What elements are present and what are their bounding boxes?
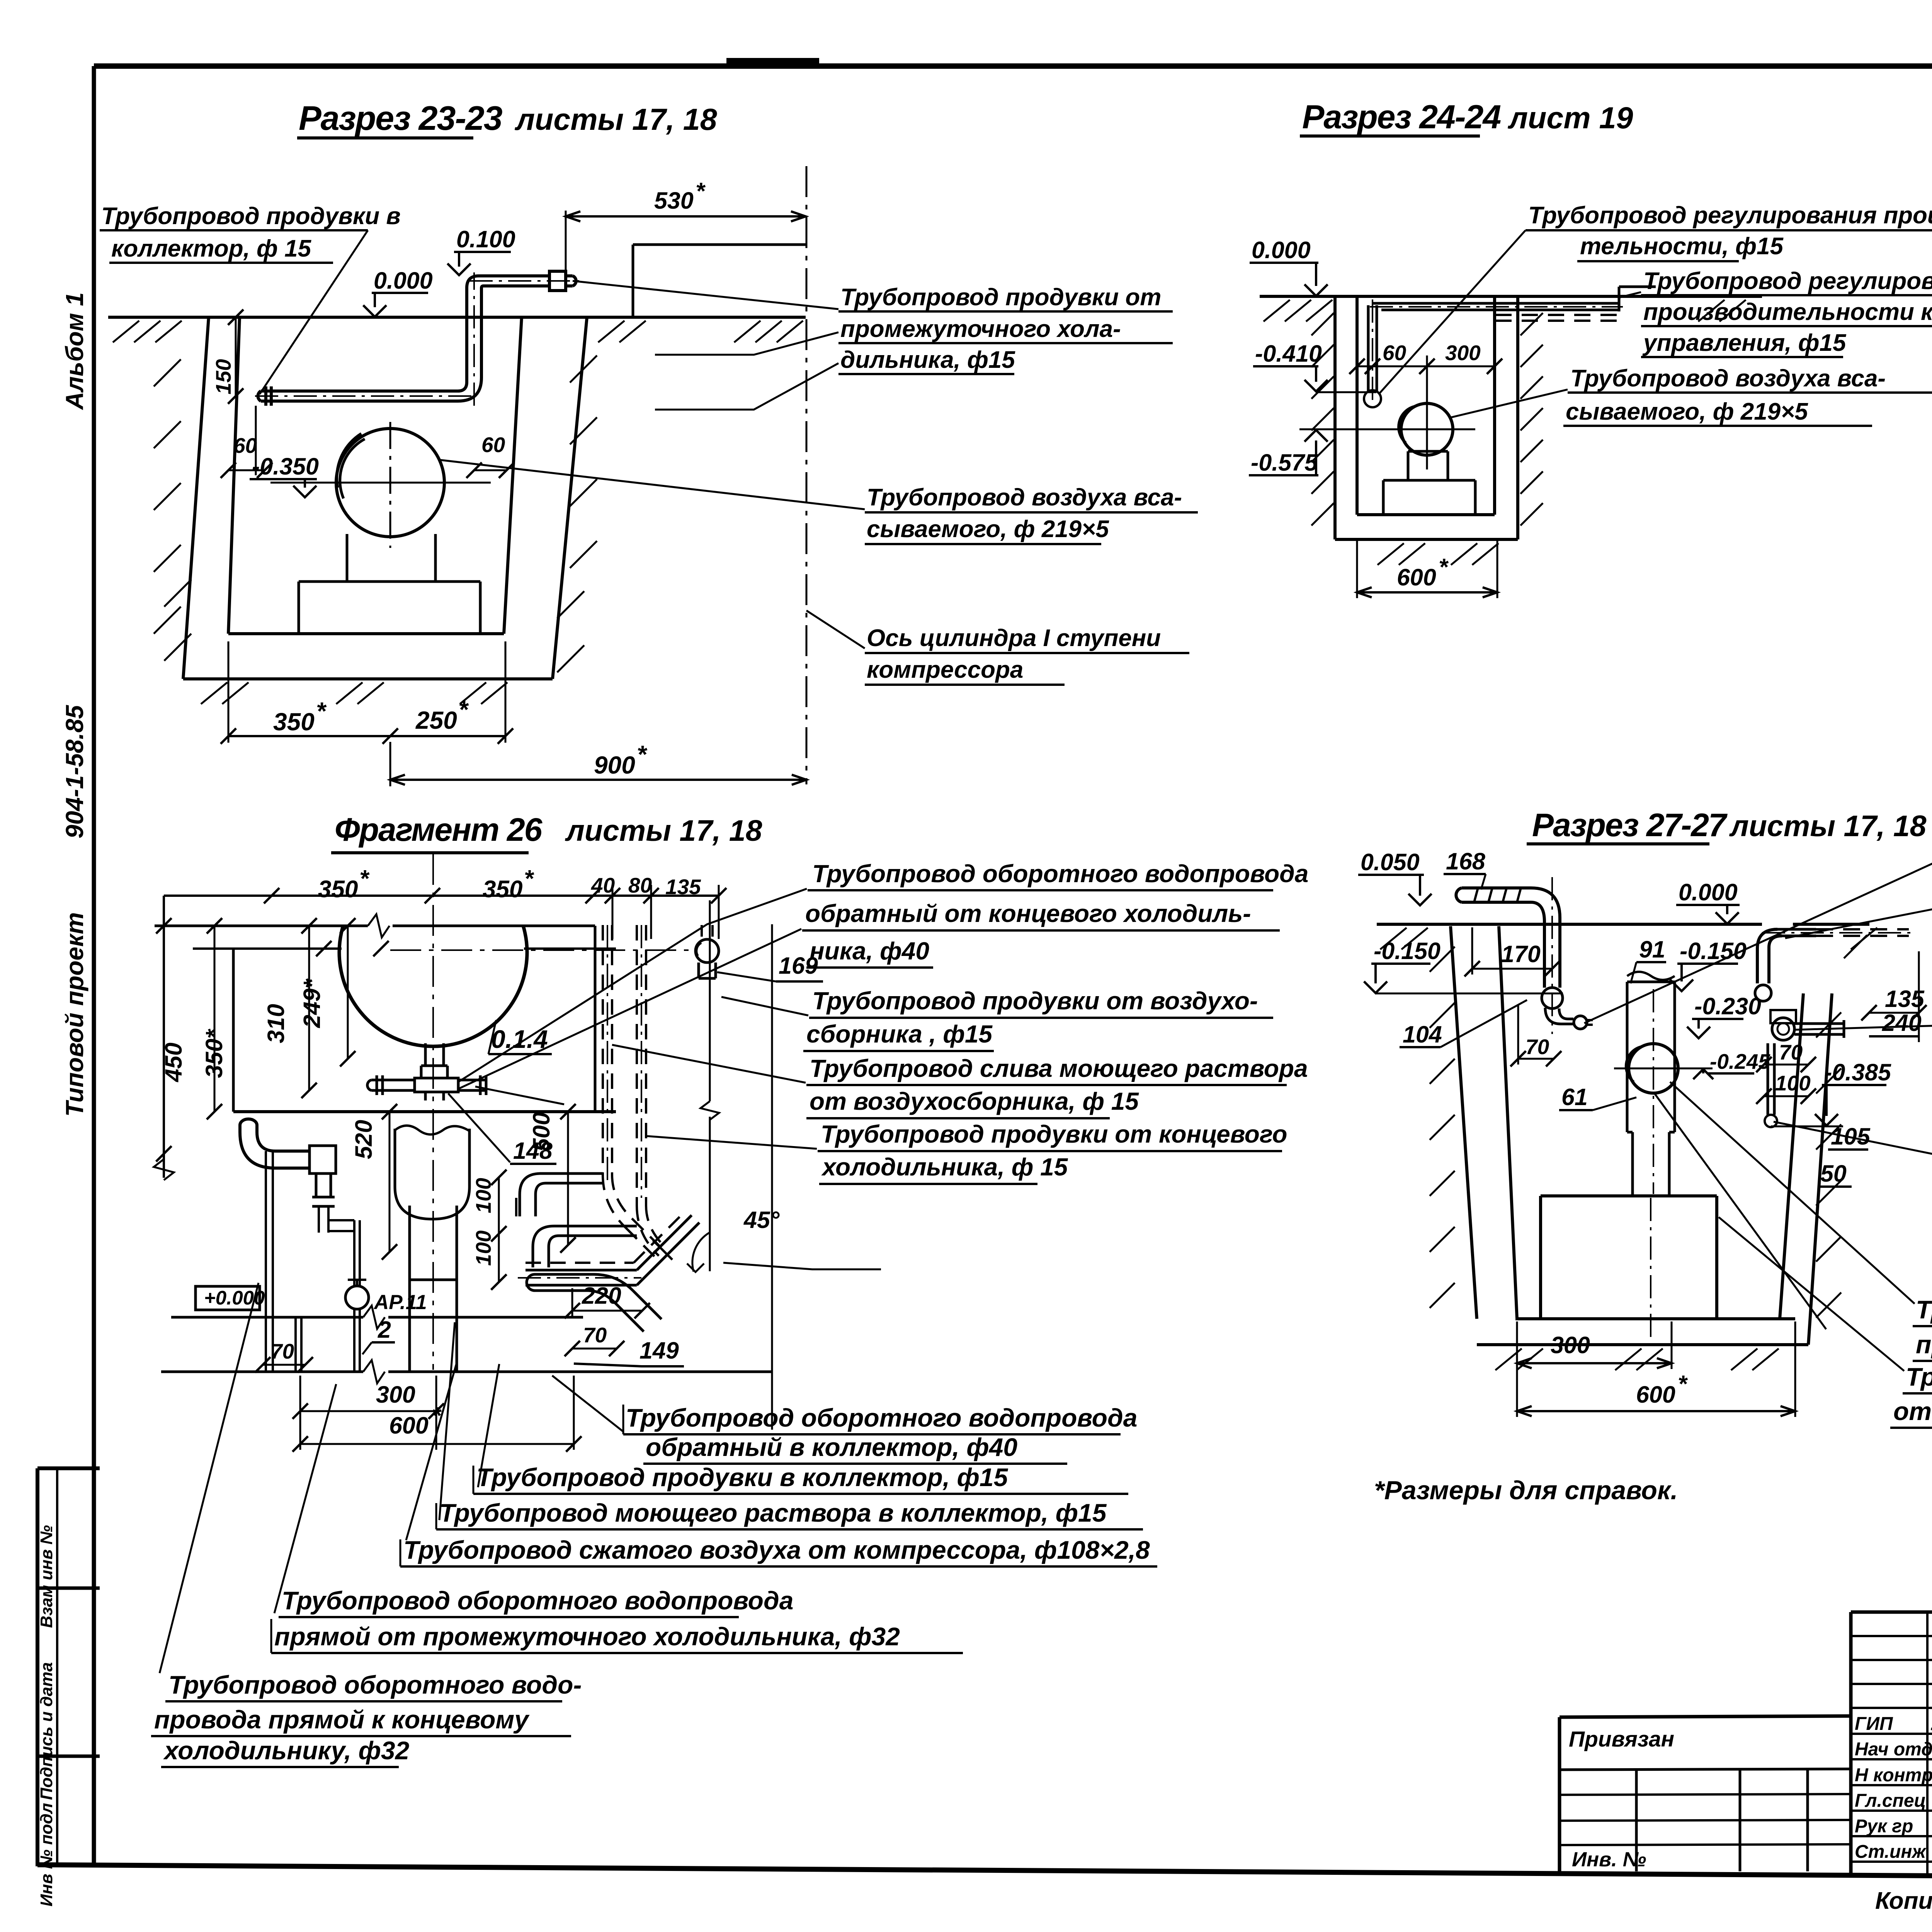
left margin vertical pipes to bottom xyxy=(265,1151,267,1317)
ground hatch s5 xyxy=(1380,928,1406,949)
svg-text:Трубопровод продувки от в: Трубопровод продувки от воздухо- xyxy=(812,987,1258,1015)
svg-text:Трубопровод оборотного водо-: Трубопровод оборотного водо- xyxy=(168,1670,582,1699)
trench walls section 1 xyxy=(183,317,209,679)
ground hatching left xyxy=(113,321,139,342)
support pedestal xyxy=(1383,479,1475,482)
svg-text:600: 600 xyxy=(1397,564,1436,590)
ground hatch xyxy=(1264,300,1290,321)
svg-text:*: * xyxy=(524,866,534,892)
pipe elbow down xyxy=(1531,888,1560,918)
svg-text:Трубопровод воздуха вса-: Трубопровод воздуха вса- xyxy=(1570,365,1886,392)
bottom pipe bundle to 45deg xyxy=(526,1262,634,1264)
svg-text:Трубопровод оборотного водоп: Трубопровод оборотного водопровода xyxy=(812,860,1308,888)
svg-text:Трубопровод сжатого воздуха: Трубопровод сжатого воздуха от ком- xyxy=(1916,1295,1932,1324)
crosshair + level -0.245 line xyxy=(1614,1068,1713,1070)
floor step right of trench xyxy=(632,245,634,317)
wall hatching xyxy=(1311,313,1334,335)
svg-text:Трубопровод продувки в: Трубопровод продувки в xyxy=(101,203,401,230)
svg-text:Фрагмент 26: Фрагмент 26 xyxy=(335,811,543,848)
+0.000 box xyxy=(196,1286,260,1310)
svg-text:300: 300 xyxy=(1551,1332,1590,1358)
svg-text:500: 500 xyxy=(528,1112,554,1151)
svg-text:0.000: 0.000 xyxy=(374,267,433,294)
pipe B flange circle xyxy=(1772,1018,1794,1040)
hatch under trench bottom xyxy=(201,682,227,704)
svg-text:*: * xyxy=(316,697,327,725)
suction air pipe circle d219x5 xyxy=(336,429,444,537)
svg-text:*Размеры для справок.: *Размеры для справок. xyxy=(1374,1476,1678,1505)
small box above pipe B xyxy=(1770,1010,1796,1023)
tank centerline extensions xyxy=(193,947,342,950)
svg-text:*: * xyxy=(1439,554,1449,580)
svg-text:Инв. №: Инв. № xyxy=(1572,1848,1646,1871)
svg-text:Ст.инж: Ст.инж xyxy=(1855,1842,1927,1862)
vertical pipe leg xyxy=(1543,922,1546,988)
tank centerlines xyxy=(432,854,434,1370)
ground line section 5 xyxy=(1377,923,1762,926)
svg-text:Трубопровод регулирования: Трубопровод регулирования xyxy=(1643,268,1932,294)
riser centerlines xyxy=(607,925,608,1182)
pipe pedestal section 1 xyxy=(346,534,349,582)
svg-text:170: 170 xyxy=(1501,941,1541,967)
pipe P2 elbow and run xyxy=(533,1226,554,1247)
45deg arc and label xyxy=(692,1233,709,1272)
hatch under channel xyxy=(1378,543,1404,565)
svg-text:ника, ф40: ника, ф40 xyxy=(810,937,929,965)
pipe P3 cap and run xyxy=(527,1274,535,1291)
svg-text:-0.245: -0.245 xyxy=(1710,1049,1770,1073)
dashed pipe to control panel xyxy=(1495,314,1618,316)
compressor cylinder column xyxy=(1627,972,1675,980)
svg-text:-0.410: -0.410 xyxy=(1255,340,1322,367)
control pipe vertical leg xyxy=(1367,305,1370,391)
svg-text:0.000: 0.000 xyxy=(1252,237,1311,263)
pipe step at right xyxy=(1618,287,1621,311)
svg-text:-0.150: -0.150 xyxy=(1374,938,1440,964)
svg-text:350: 350 xyxy=(483,876,522,903)
coupling box xyxy=(310,1146,336,1173)
privjazan box xyxy=(1560,1716,1851,1717)
svg-text:600: 600 xyxy=(1636,1381,1675,1408)
pipe P1 elbow and run xyxy=(520,1173,541,1194)
insulated blowdown pipe top left xyxy=(1462,886,1531,889)
45 degree diagonals xyxy=(637,1215,692,1270)
pipe circle crosshair xyxy=(270,482,491,484)
svg-text:коллектор, ф 15: коллектор, ф 15 xyxy=(111,235,312,262)
svg-text:ГИП: ГИП xyxy=(1855,1714,1893,1734)
drain elbow and valve xyxy=(1545,1008,1561,1024)
svg-text:Взам инв №: Взам инв № xyxy=(37,1525,56,1628)
top dimension line xyxy=(164,895,719,897)
signature table xyxy=(1849,1612,1853,1873)
compressor cylinder bell xyxy=(395,1126,469,1134)
svg-text:Разрез 23-23: Разрез 23-23 xyxy=(299,99,502,137)
svg-text:600: 600 xyxy=(389,1412,429,1439)
svg-text:Трубопровод продувки от: Трубопровод продувки от xyxy=(840,284,1161,311)
svg-text:904-1-58.85: 904-1-58.85 xyxy=(61,704,88,838)
blowdown pipe horizontal run xyxy=(261,389,458,393)
svg-text:250: 250 xyxy=(415,706,457,734)
svg-text:Инв № подл: Инв № подл xyxy=(37,1803,56,1906)
cylinder pipe circle xyxy=(1629,1044,1678,1093)
left pipe with elbow up xyxy=(276,1150,310,1153)
svg-text:листы 17, 18: листы 17, 18 xyxy=(565,814,762,847)
svg-text:240: 240 xyxy=(1882,1010,1922,1036)
svg-text:дильника, ф15: дильника, ф15 xyxy=(840,347,1015,373)
border frame xyxy=(94,63,1932,69)
tank neck xyxy=(424,1043,427,1066)
svg-text:Трубопровод продувки в колл: Трубопровод продувки в коллектор, ф15 xyxy=(476,1463,1009,1492)
svg-text:*: * xyxy=(359,866,370,892)
hatch under bottom s5 xyxy=(1495,1349,1522,1370)
elbow to valve pipe xyxy=(328,1219,354,1221)
pipe elbow fitting circle xyxy=(1364,390,1381,407)
svg-text:60: 60 xyxy=(481,433,505,457)
control pipe horizontal run xyxy=(1372,302,1618,305)
svg-text:60: 60 xyxy=(1383,341,1406,365)
shelf line under tank xyxy=(233,1110,616,1113)
svg-text:Альбом 1: Альбом 1 xyxy=(61,293,88,410)
right pipe A elbow from ground xyxy=(1757,929,1777,949)
leaders fragment right labels xyxy=(458,889,807,1082)
air receiver tank circle xyxy=(339,926,527,1046)
svg-text:сываемого, ф 219×5: сываемого, ф 219×5 xyxy=(867,516,1109,543)
svg-text:350: 350 xyxy=(318,876,358,903)
svg-text:*: * xyxy=(637,740,648,768)
fitting circle xyxy=(1542,988,1563,1009)
leader wires xyxy=(573,281,838,309)
svg-text:АР.11: АР.11 xyxy=(373,1291,427,1314)
svg-text:104: 104 xyxy=(1403,1021,1442,1048)
pipe coupling xyxy=(549,271,566,291)
extension verticals right xyxy=(709,900,711,1101)
svg-text:-0.350: -0.350 xyxy=(252,453,319,480)
svg-text:обратный от концевого хол: обратный от концевого холодиль- xyxy=(805,900,1251,927)
svg-text:70: 70 xyxy=(1779,1040,1803,1064)
svg-text:530: 530 xyxy=(654,187,694,214)
svg-text:Н контр: Н контр xyxy=(1855,1765,1932,1786)
svg-text:Трубопровод оборотного водоп: Трубопровод оборотного водопровода xyxy=(626,1403,1137,1432)
svg-text:прессора к концевому холоди: прессора к концевому холодильнику, ф108×… xyxy=(1916,1330,1932,1359)
svg-text:холодильнику, ф32: холодильнику, ф32 xyxy=(163,1736,410,1765)
svg-text:-0.575: -0.575 xyxy=(1251,449,1318,476)
svg-text:520: 520 xyxy=(350,1120,377,1159)
svg-text:0.000: 0.000 xyxy=(1679,879,1738,905)
svg-text:150: 150 xyxy=(211,359,235,395)
svg-text:0.050: 0.050 xyxy=(1361,849,1420,875)
svg-text:Трубопровод моющего раствора в: Трубопровод моющего раствора в коллектор… xyxy=(439,1498,1107,1527)
svg-text:Трубопровод оборотного водоп: Трубопровод оборотного водопровода прямо… xyxy=(1906,1362,1932,1391)
svg-text:Трубопровод оборотного водоп: Трубопровод оборотного водопровода xyxy=(282,1586,793,1615)
svg-text:249*: 249* xyxy=(299,978,325,1028)
svg-text:168: 168 xyxy=(1446,848,1485,874)
svg-text:80: 80 xyxy=(628,873,652,897)
excavation hatching walls xyxy=(154,359,181,386)
leader wire to blowdown pipe xyxy=(260,230,368,394)
elbow circle top right xyxy=(696,939,719,963)
svg-text:Трубопровод продувки от кон: Трубопровод продувки от концевого xyxy=(821,1120,1287,1148)
valve AP.11 xyxy=(345,1286,369,1309)
svg-text:100: 100 xyxy=(1775,1071,1811,1095)
svg-text:Трубопровод слива моющего ра: Трубопровод слива моющего раствора xyxy=(810,1054,1308,1082)
svg-text:прямой от промежуточного хо: прямой от промежуточного холодильника, ф… xyxy=(274,1622,900,1651)
svg-text:350: 350 xyxy=(273,708,315,736)
svg-text:900: 900 xyxy=(594,751,635,779)
fragment bottom floor lines xyxy=(171,1316,363,1319)
svg-text:Гл.спец: Гл.спец xyxy=(1855,1791,1926,1811)
left margin stamp column xyxy=(37,1466,100,1470)
svg-text:от воздухосборника, ф 15: от воздухосборника, ф 15 xyxy=(810,1087,1139,1115)
slab cut line with break xyxy=(155,925,368,927)
blowdown pipe elbow up xyxy=(458,378,481,401)
svg-text:*: * xyxy=(696,178,706,204)
wall hatch s5 xyxy=(1430,947,1455,972)
svg-text:100: 100 xyxy=(471,1230,495,1266)
svg-text:Копировал Ненашева: Копировал Ненашева xyxy=(1875,1888,1932,1914)
blowdown pipe top horizontal to coupling xyxy=(479,274,549,277)
svg-text:0.1.4: 0.1.4 xyxy=(491,1025,548,1053)
svg-text:от промежуточного холодильн: от промежуточного холодильника к концево… xyxy=(1893,1397,1932,1425)
leader diagonals to bottom labels xyxy=(160,1283,259,1673)
svg-text:70: 70 xyxy=(1526,1035,1549,1059)
right riser dashed pipes pair B xyxy=(636,925,638,1206)
ground line 0.000 section 1 xyxy=(108,316,806,319)
svg-text:управления, ф15: управления, ф15 xyxy=(1642,330,1847,356)
svg-text:*: * xyxy=(1678,1371,1688,1397)
svg-text:сборника , ф15: сборника , ф15 xyxy=(806,1020,993,1048)
right riser dashed pipes pair A xyxy=(602,925,604,1175)
svg-text:лист 19: лист 19 xyxy=(1507,100,1633,135)
svg-text:компрессора: компрессора xyxy=(867,656,1023,683)
vertical drop from coupling xyxy=(315,1173,318,1197)
svg-text:холодильника, ф 15: холодильника, ф 15 xyxy=(821,1153,1068,1181)
svg-text:50: 50 xyxy=(1820,1160,1847,1187)
blowdown pipe vertical run xyxy=(465,288,468,382)
svg-text:Нач отд: Нач отд xyxy=(1855,1739,1932,1760)
blowdown pipe top elbow xyxy=(467,276,479,288)
svg-text:провода прямой к концевому: провода прямой к концевому xyxy=(154,1705,530,1734)
svg-text:Типовой проект: Типовой проект xyxy=(61,912,88,1117)
svg-text:Трубопровод воздуха вса-: Трубопровод воздуха вса- xyxy=(867,484,1182,511)
svg-text:-0.230: -0.230 xyxy=(1694,993,1761,1019)
verticals crossing floor lines xyxy=(265,1317,267,1372)
svg-text:Ось цилиндра I ступени: Ось цилиндра I ступени xyxy=(867,625,1161,651)
svg-text:-0.150: -0.150 xyxy=(1680,938,1747,964)
svg-text:70: 70 xyxy=(270,1339,294,1363)
svg-text:Разрез 27-27: Разрез 27-27 xyxy=(1532,807,1728,843)
svg-text:149: 149 xyxy=(639,1337,679,1364)
svg-text:310: 310 xyxy=(263,1004,289,1043)
svg-text:листы 17, 18: листы 17, 18 xyxy=(514,102,717,136)
ground hatching right of trench xyxy=(598,321,624,342)
svg-text:45°: 45° xyxy=(743,1207,780,1233)
support column xyxy=(1407,451,1410,480)
svg-text:*: * xyxy=(458,696,469,723)
svg-text:91: 91 xyxy=(1639,936,1665,963)
level -0.385 line xyxy=(1771,1126,1843,1128)
compressor axis centerline xyxy=(806,166,808,784)
channel walls section 2 xyxy=(1333,296,1337,539)
svg-text:61: 61 xyxy=(1561,1084,1588,1110)
box walls xyxy=(232,949,235,1112)
svg-text:2: 2 xyxy=(378,1316,391,1343)
tee fitting xyxy=(415,1078,458,1092)
svg-text:Привязан: Привязан xyxy=(1569,1727,1674,1752)
svg-text:Подпись и дата: Подпись и дата xyxy=(37,1662,56,1800)
suction pipe circle section 2 xyxy=(1401,403,1453,455)
pipe centerline xyxy=(1370,306,1623,308)
svg-text:300: 300 xyxy=(376,1381,415,1408)
pipe centerlines xyxy=(255,395,476,397)
svg-text:тельности, ф15: тельности, ф15 xyxy=(1580,233,1784,260)
trench walls section 5 xyxy=(1451,926,1477,1319)
svg-text:70: 70 xyxy=(583,1323,607,1347)
svg-text:промежуточного хола-: промежуточного хола- xyxy=(840,316,1121,342)
leader diagonals s5 xyxy=(1584,835,1932,1023)
svg-text:Рук гр: Рук гр xyxy=(1855,1816,1913,1837)
svg-text:Разрез 24-24: Разрез 24-24 xyxy=(1302,99,1501,136)
pipe centerline s5 xyxy=(1551,877,1553,1034)
svg-text:листы 17, 18: листы 17, 18 xyxy=(1729,810,1927,843)
svg-text:обратный в коллектор, ф40: обратный в коллектор, ф40 xyxy=(646,1433,1017,1461)
svg-text:Трубопровод сжатого воздуха от: Трубопровод сжатого воздуха от компрессо… xyxy=(403,1536,1150,1564)
svg-text:производительности к щиту: производительности к щиту xyxy=(1643,299,1932,325)
svg-text:сываемого, ф 219×5: сываемого, ф 219×5 xyxy=(1566,398,1808,425)
svg-text:0.100: 0.100 xyxy=(456,226,515,252)
svg-text:300: 300 xyxy=(1445,341,1481,365)
ground line section 2 xyxy=(1260,295,1762,298)
svg-text:Трубопровод регулирования пр: Трубопровод регулирования производи- xyxy=(1528,202,1932,229)
svg-text:-0.385: -0.385 xyxy=(1824,1059,1891,1085)
foundation block xyxy=(1541,1194,1717,1197)
pipe C vertical xyxy=(1767,1043,1769,1115)
